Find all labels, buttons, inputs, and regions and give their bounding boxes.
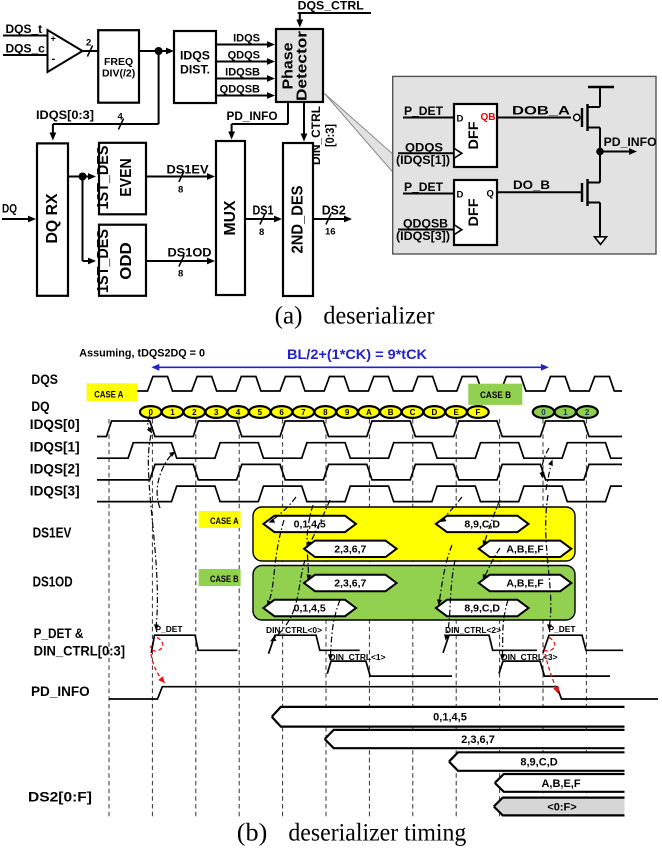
hexagon DS1OD A,B,E,F bbox=[479, 575, 572, 591]
wire FREQ DIV to IDQS DIST bbox=[139, 50, 169, 52]
svg-text:8,9,C,D: 8,9,C,D bbox=[464, 603, 500, 615]
timing grid dashed vertical lines bbox=[109, 419, 586, 818]
svg-text:Q: Q bbox=[487, 189, 494, 200]
block IDQS DIST. bbox=[174, 31, 216, 103]
svg-text:IDQS[3]: IDQS[3] bbox=[30, 483, 80, 499]
red dashed loop at first P_DET bbox=[151, 638, 163, 651]
svg-text:IDQSB: IDQSB bbox=[225, 67, 260, 79]
wire DQS_t to buffer + bbox=[3, 35, 48, 37]
svg-text:ODD: ODD bbox=[118, 242, 135, 280]
svg-text:4: 4 bbox=[236, 408, 241, 417]
svg-text:A: A bbox=[366, 408, 372, 417]
svg-text:DQS_c: DQS_c bbox=[6, 42, 46, 56]
svg-text:DIV(/2): DIV(/2) bbox=[102, 68, 135, 80]
wire DS1 bus MUX to 2ND_DES, width 8 bbox=[245, 218, 277, 220]
dash-dot arrow into DS1OD hexagon 8,9,C,D bbox=[439, 545, 452, 603]
svg-text:DQ: DQ bbox=[31, 398, 49, 414]
wire DS1OD bus to MUX, width 8 bbox=[146, 260, 210, 262]
svg-text:5: 5 bbox=[258, 408, 263, 417]
svg-text:16: 16 bbox=[325, 227, 336, 238]
svg-text:-: - bbox=[52, 53, 56, 65]
pulse DIN_CTRL<3> bbox=[499, 661, 610, 676]
svg-text:4: 4 bbox=[118, 112, 124, 123]
dash-dot arrow into DS1OD hexagon 2,3,6,7 bbox=[307, 505, 313, 578]
svg-text:DS2[0:F]: DS2[0:F] bbox=[28, 789, 92, 805]
wire buffer output to FREQ DIV, bus width 2 bbox=[83, 50, 99, 52]
svg-text:A,B,E,F: A,B,E,F bbox=[506, 544, 544, 556]
svg-text:0,1,4,5: 0,1,4,5 bbox=[433, 712, 467, 724]
wire PD_INFO output arrow bbox=[600, 151, 632, 153]
hexagon DS1EV 8,9,C,D bbox=[436, 516, 529, 532]
svg-text:D: D bbox=[457, 190, 464, 201]
wire QDQSB to U2 clock bbox=[398, 229, 454, 231]
svg-text:A,B,E,F: A,B,E,F bbox=[541, 778, 580, 790]
dash-dot curve down to DIN_CTRL<3> bbox=[502, 600, 508, 658]
VDD rail bar bbox=[588, 86, 614, 88]
svg-text:B: B bbox=[388, 408, 394, 417]
wire QDQSB to Phase Detector bbox=[216, 95, 270, 97]
PMOS transistor Q1 bbox=[581, 108, 583, 127]
svg-text:7: 7 bbox=[301, 408, 306, 417]
svg-text:D: D bbox=[457, 114, 464, 125]
svg-text:P_DET: P_DET bbox=[404, 182, 443, 194]
block MUX bbox=[216, 141, 245, 295]
wire junction down to 1ST_DES ODD bbox=[82, 177, 84, 262]
svg-text:2: 2 bbox=[86, 38, 91, 49]
svg-text:8: 8 bbox=[259, 227, 264, 238]
block FREQ DIV(/2) bbox=[98, 30, 139, 103]
svg-text:DO_B: DO_B bbox=[513, 178, 550, 192]
output node dot PD_INFO bbox=[596, 148, 604, 156]
svg-text:DIN_CTRL<2>: DIN_CTRL<2> bbox=[445, 626, 501, 635]
IDQS[3] waveform bbox=[97, 486, 622, 502]
svg-text:CASE A: CASE A bbox=[210, 516, 239, 527]
svg-text:PD_INFO: PD_INFO bbox=[604, 135, 657, 149]
svg-text:<0:F>: <0:F> bbox=[547, 801, 576, 813]
svg-text:P_DET: P_DET bbox=[404, 106, 443, 118]
svg-text:deserializer: deserializer bbox=[323, 303, 435, 330]
svg-text:DQ: DQ bbox=[2, 204, 17, 216]
svg-text:CASE B: CASE B bbox=[210, 574, 239, 585]
svg-text:QDQS: QDQS bbox=[228, 50, 260, 62]
hexagon DS1OD 0,1,4,5 bbox=[263, 600, 356, 616]
wire DQS_CTRL into Phase Detector bbox=[298, 12, 371, 14]
svg-text:QDQSB: QDQSB bbox=[220, 84, 260, 96]
wire QDQS to Phase Detector bbox=[216, 61, 270, 63]
svg-text:BL/2+(1*CK) = 9*tCK: BL/2+(1*CK) = 9*tCK bbox=[287, 346, 427, 362]
svg-text:F: F bbox=[476, 408, 481, 417]
svg-text:8: 8 bbox=[323, 408, 328, 417]
hexagon DS1EV 0,1,4,5 bbox=[263, 516, 356, 532]
svg-text:(IDQS[1]): (IDQS[1]) bbox=[396, 155, 450, 167]
block 1ST_DES ODD bbox=[99, 225, 146, 296]
svg-text:PD_INFO: PD_INFO bbox=[227, 111, 278, 123]
dash-dot arrow into DS1OD hexagon A,B,E,F bbox=[484, 548, 500, 578]
DFF U2 (lower flip-flop) bbox=[454, 180, 497, 245]
svg-text:(a): (a) bbox=[275, 303, 303, 330]
data bar <0:F> (gray) bbox=[494, 798, 625, 816]
svg-text:(b): (b) bbox=[237, 820, 267, 847]
svg-text:DS1: DS1 bbox=[253, 204, 274, 218]
svg-text:+: + bbox=[51, 34, 56, 44]
dash-dot arrow into DS1EV hexagon 2,3,6,7 bbox=[309, 500, 330, 545]
svg-text:PD_INFO: PD_INFO bbox=[31, 683, 90, 699]
block 1ST_DES EVEN bbox=[99, 143, 146, 215]
IDQS[1] waveform bbox=[97, 443, 622, 459]
svg-text:IDQS[0]: IDQS[0] bbox=[30, 416, 80, 432]
wire QDQS to U1 clock bbox=[398, 152, 454, 154]
svg-text:DIN_CTRL<1>: DIN_CTRL<1> bbox=[330, 653, 386, 662]
blue span arrow 9*tCK bbox=[154, 366, 546, 368]
svg-text:C: C bbox=[410, 408, 416, 417]
dash-dot arrow CASE B sample down (IDQS[2]) bbox=[542, 448, 549, 476]
svg-text:DQS: DQS bbox=[31, 371, 58, 387]
svg-text:MUX: MUX bbox=[222, 200, 239, 236]
svg-text:3: 3 bbox=[214, 408, 219, 417]
callout wedge from Phase Detector to detail inset bbox=[325, 94, 393, 173]
svg-text:[0:3]: [0:3] bbox=[323, 124, 337, 147]
svg-text:2ND_DES: 2ND_DES bbox=[290, 186, 307, 254]
svg-text:D: D bbox=[432, 408, 438, 417]
svg-text:DQS_CTRL: DQS_CTRL bbox=[298, 1, 364, 13]
wire DQ RX to 1ST_DES EVEN bbox=[68, 176, 91, 178]
svg-text:DOB_A: DOB_A bbox=[512, 104, 570, 118]
block Phase Detector bbox=[276, 29, 323, 102]
pulse DIN_CTRL<1> bbox=[327, 661, 452, 676]
wire IDQSB to Phase Detector bbox=[216, 78, 270, 80]
svg-text:9: 9 bbox=[345, 408, 350, 417]
red dashed arrow to PD_INFO rise bbox=[151, 654, 163, 681]
svg-text:DIN_CTRL<3>: DIN_CTRL<3> bbox=[502, 653, 558, 662]
red dashed loop at second P_DET bbox=[543, 638, 554, 651]
wire DOB_A from U1 QB to PMOS gate bbox=[497, 117, 571, 119]
block 2ND_DES bbox=[283, 143, 313, 296]
dash-dot arrow into DS1EV hexagon A,B,E,F bbox=[484, 500, 500, 544]
svg-text:CASE B: CASE B bbox=[480, 390, 511, 401]
highlight CASE A (top) bbox=[87, 383, 138, 401]
svg-text:E: E bbox=[454, 408, 460, 417]
ground symbol bbox=[595, 237, 607, 245]
svg-text:2,3,6,7: 2,3,6,7 bbox=[334, 544, 366, 556]
dash-dot arrow into DS1OD hexagon 0,1,4,5 bbox=[268, 520, 284, 604]
dash-dot arrow from DQ0 to IDQS[0] fall bbox=[148, 415, 151, 432]
highlight CASE B (top) bbox=[468, 384, 522, 405]
svg-text:1: 1 bbox=[563, 408, 568, 417]
svg-text:DS1EV: DS1EV bbox=[33, 526, 72, 542]
pulse P_DET second bbox=[543, 635, 623, 653]
svg-text:P_DET: P_DET bbox=[549, 625, 576, 634]
DQ data ellipses 0-2 (green) bbox=[533, 406, 598, 418]
dash-dot arrow to IDQS[1] rise (CASE A sample) bbox=[157, 453, 173, 508]
wire DS1EV bus to MUX, width 8 bbox=[146, 176, 210, 178]
svg-text:DIN_CTRL[0:3]: DIN_CTRL[0:3] bbox=[34, 643, 126, 659]
dash-dot curve CASE B down to P_DET second bbox=[546, 495, 551, 628]
svg-text:8: 8 bbox=[178, 185, 183, 196]
IDQS[0] waveform bbox=[97, 421, 622, 437]
svg-text:1: 1 bbox=[170, 408, 175, 417]
highlight CASE B label (DS1OD) bbox=[199, 569, 241, 586]
hexagon DS1OD 2,3,6,7 bbox=[304, 575, 397, 591]
highlight CASE A label (DS1EV) bbox=[199, 511, 241, 528]
hexagon DS1EV A,B,E,F bbox=[479, 541, 572, 557]
wire DQ into DQ RX bbox=[2, 218, 31, 220]
NMOS transistor Q2 bbox=[581, 183, 583, 202]
svg-text:6: 6 bbox=[279, 408, 284, 417]
red dashed arrow to PD_INFO fall bbox=[545, 654, 557, 691]
svg-text:QB: QB bbox=[481, 112, 496, 123]
pulse P_DET first bbox=[151, 635, 237, 653]
block DQ RX bbox=[37, 143, 68, 295]
amplifier/receiver DQS input buffer bbox=[48, 30, 83, 72]
pulse DIN_CTRL<2> bbox=[443, 635, 537, 653]
svg-text:DS1OD: DS1OD bbox=[168, 246, 212, 260]
svg-text:1ST_DES: 1ST_DES bbox=[95, 146, 112, 210]
svg-text:A,B,E,F: A,B,E,F bbox=[506, 578, 544, 590]
IDQS[2] waveform bbox=[97, 464, 622, 480]
svg-text:DIN_CTRL<0>: DIN_CTRL<0> bbox=[266, 626, 322, 635]
clock pin triangle U2 bbox=[454, 225, 462, 235]
svg-text:IDQS[2]: IDQS[2] bbox=[30, 460, 80, 476]
wire DO_B from U2 Q to NMOS gate bbox=[497, 191, 582, 193]
svg-text:8,9,C,D: 8,9,C,D bbox=[464, 519, 500, 531]
wire IDQS[0:3] feedback to DQ RX, bus width 4 bbox=[158, 51, 160, 124]
dash-dot arrow into DS1EV hexagon 0,1,4,5 bbox=[271, 497, 296, 521]
svg-text:2,3,6,7: 2,3,6,7 bbox=[334, 578, 366, 590]
data bar 8,9,C,D bbox=[449, 752, 625, 771]
PMOS transistor Q1 gate bubble bbox=[574, 114, 580, 120]
svg-text:EVEN: EVEN bbox=[118, 158, 135, 197]
svg-text:P_DET: P_DET bbox=[156, 625, 183, 634]
svg-text:IDQS[1]: IDQS[1] bbox=[30, 438, 80, 454]
svg-text:DQ RX: DQ RX bbox=[44, 193, 61, 244]
svg-text:CASE A: CASE A bbox=[94, 389, 123, 400]
junction node after FREQ DIV bbox=[155, 47, 163, 55]
svg-text:DS1EV: DS1EV bbox=[167, 163, 209, 177]
svg-text:DS2: DS2 bbox=[322, 204, 346, 218]
svg-text:FREQ: FREQ bbox=[104, 56, 133, 68]
svg-text:DFF: DFF bbox=[465, 198, 481, 226]
svg-text:2,3,6,7: 2,3,6,7 bbox=[461, 734, 495, 746]
hexagon DS1OD 8,9,C,D bbox=[436, 600, 529, 616]
svg-text:DFF: DFF bbox=[465, 121, 481, 149]
svg-text:8: 8 bbox=[178, 269, 183, 280]
svg-text:0: 0 bbox=[541, 408, 546, 417]
dash-dot curve down to DIN_CTRL<1> bbox=[330, 600, 340, 658]
svg-text:IDQS: IDQS bbox=[180, 51, 210, 63]
svg-text:8,9,C,D: 8,9,C,D bbox=[520, 756, 557, 768]
detail inset panel (phase detector internals) bbox=[393, 76, 656, 254]
pulse DIN_CTRL<0> bbox=[269, 635, 360, 654]
wire DQS_c to buffer - bbox=[3, 54, 48, 56]
junction node after DQ RX bbox=[79, 173, 87, 181]
data bar 0,1,4,5 bbox=[272, 707, 625, 727]
data bar 2,3,6,7 bbox=[325, 730, 625, 748]
DS1OD green band bbox=[253, 566, 575, 621]
wire node to NMOS bbox=[599, 152, 601, 183]
svg-text:1ST_DES: 1ST_DES bbox=[95, 229, 112, 293]
svg-text:0,1,4,5: 0,1,4,5 bbox=[294, 603, 326, 615]
dash-dot curve down to DIN_CTRL<0> bbox=[272, 560, 305, 640]
wire DIN_CTRL[0:3] from Phase Detector to 2ND_DES bbox=[303, 102, 305, 137]
wire IDQS to Phase Detector bbox=[216, 44, 270, 46]
svg-text:2: 2 bbox=[585, 408, 590, 417]
svg-text:deserializer timing: deserializer timing bbox=[288, 820, 466, 847]
DQS waveform bbox=[134, 377, 622, 392]
wire DS2 output bus, width 16 bbox=[313, 218, 347, 220]
clock pin triangle U1 bbox=[454, 148, 462, 158]
svg-text:Assuming, tDQS2DQ = 0: Assuming, tDQS2DQ = 0 bbox=[79, 348, 205, 360]
svg-text:P_DET &: P_DET & bbox=[34, 625, 84, 641]
svg-text:(IDQS[3]): (IDQS[3]) bbox=[396, 231, 450, 243]
DS1EV yellow band bbox=[253, 507, 575, 561]
svg-text:Detector: Detector bbox=[294, 31, 311, 101]
dash-dot arrow CASE B sample up (IDQS[1]) bbox=[546, 462, 552, 490]
PD_INFO waveform bbox=[109, 687, 658, 699]
svg-text:IDQS[0:3]: IDQS[0:3] bbox=[36, 110, 94, 122]
wire P_DET to U2 D bbox=[403, 193, 454, 195]
wire PD_INFO from Phase Detector to MUX bbox=[287, 102, 289, 124]
svg-text:DIST.: DIST. bbox=[180, 65, 210, 77]
hexagon DS1EV 2,3,6,7 bbox=[304, 541, 397, 557]
dash-dot curve down to DIN_CTRL<2> bbox=[446, 560, 455, 638]
svg-text:2: 2 bbox=[192, 408, 197, 417]
svg-text:DQS_t: DQS_t bbox=[6, 22, 43, 36]
DFF U1 (upper flip-flop) bbox=[454, 104, 497, 167]
DQ data ellipses 0-F (yellow) bbox=[140, 406, 489, 418]
dash-dot curve DQ0 down to P_DET bbox=[148, 435, 157, 628]
svg-text:DS1OD: DS1OD bbox=[33, 575, 73, 591]
data bar A,B,E,F bbox=[495, 774, 625, 792]
dash-dot arrow into DS1EV hexagon 8,9,C,D bbox=[442, 497, 462, 520]
svg-text:IDQS: IDQS bbox=[233, 33, 260, 45]
wire P_DET to U1 D bbox=[403, 117, 454, 119]
